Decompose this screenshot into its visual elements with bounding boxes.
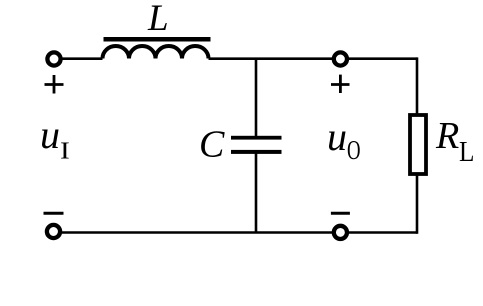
svg-text:L: L xyxy=(147,0,169,39)
plus sign output xyxy=(331,75,350,93)
svg-text:u: u xyxy=(327,114,347,159)
wire right vertical (top corner down to resistor) xyxy=(416,57,419,115)
wire capacitor branch upper xyxy=(255,59,258,137)
wire bottom segment xyxy=(54,231,417,234)
terminal top-left xyxy=(47,52,60,65)
svg-text:u: u xyxy=(40,112,60,157)
svg-text:L: L xyxy=(459,135,474,167)
svg-text:R: R xyxy=(435,115,459,157)
svg-text:C: C xyxy=(199,124,225,166)
terminal bottom-left xyxy=(47,225,60,238)
wire top segment (inductor to right corner) xyxy=(209,57,418,60)
resistor RL box xyxy=(410,115,426,174)
svg-text:I: I xyxy=(60,137,70,164)
terminal top-right xyxy=(334,52,347,65)
minus sign output xyxy=(331,212,350,215)
wire right vertical (resistor to bottom corner) xyxy=(416,175,419,234)
plus sign input xyxy=(45,75,64,94)
wire capacitor branch lower xyxy=(255,152,258,233)
minus sign input xyxy=(44,212,64,215)
inductor L coil xyxy=(103,46,209,59)
inductor L core bar xyxy=(104,37,211,42)
wire top segment (input terminal to inductor) xyxy=(54,57,103,60)
capacitor C bottom plate xyxy=(231,150,282,154)
svg-text:O: O xyxy=(347,136,361,166)
terminal bottom-right xyxy=(334,226,347,239)
capacitor C top plate xyxy=(231,136,282,140)
